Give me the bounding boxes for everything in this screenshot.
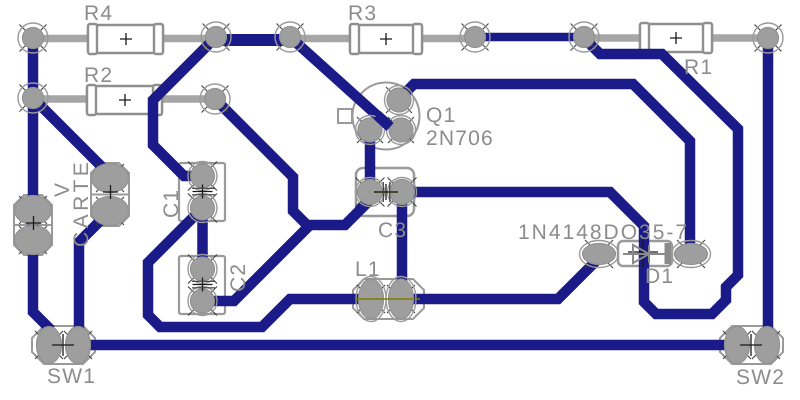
svg-text:L1: L1: [355, 258, 381, 281]
svg-text:D1: D1: [645, 265, 674, 288]
svg-text:2N706: 2N706: [426, 127, 494, 150]
svg-text:C3: C3: [378, 219, 407, 242]
svg-text:Q1: Q1: [426, 104, 456, 127]
svg-text:R2: R2: [84, 64, 113, 87]
svg-text:SW2: SW2: [736, 366, 785, 389]
svg-text:R1: R1: [684, 56, 713, 79]
svg-text:CARTE: CARTE: [70, 159, 93, 247]
svg-text:SW1: SW1: [47, 365, 96, 388]
svg-text:R3: R3: [348, 2, 377, 25]
svg-text:R4: R4: [84, 2, 113, 25]
svg-text:C2: C2: [227, 263, 250, 292]
svg-text:C1: C1: [160, 189, 183, 218]
svg-text:1N4148DO35-7: 1N4148DO35-7: [518, 221, 689, 244]
